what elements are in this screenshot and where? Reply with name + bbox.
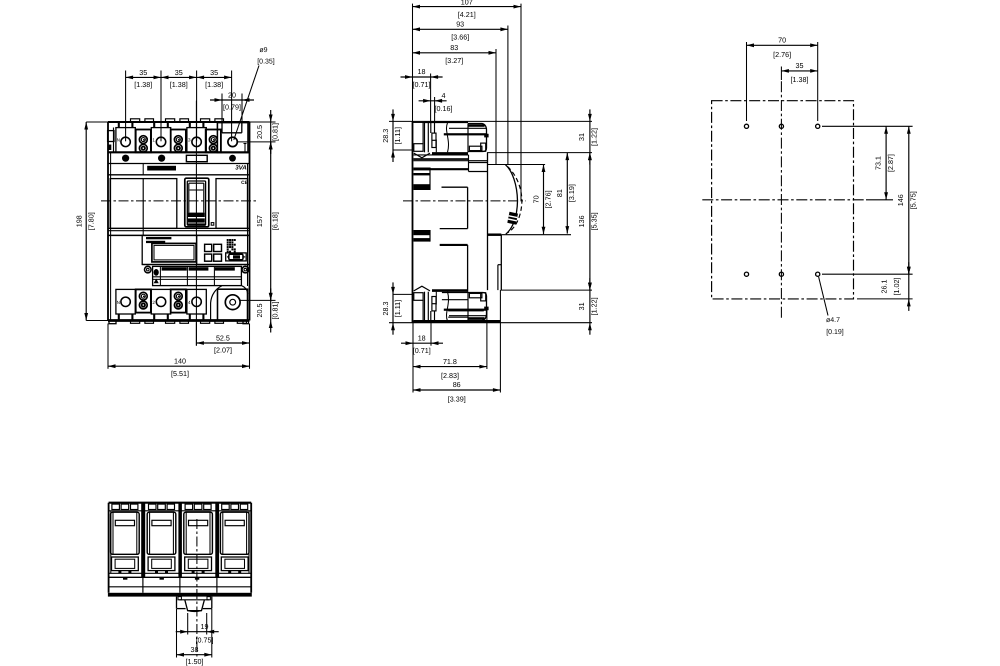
svg-text:4: 4 <box>442 91 446 100</box>
svg-text:[2.76]: [2.76] <box>544 190 553 208</box>
svg-text:[0.71]: [0.71] <box>413 346 431 355</box>
svg-text:[5.75]: [5.75] <box>909 191 918 209</box>
svg-text:136: 136 <box>577 215 586 227</box>
svg-text:[3.19]: [3.19] <box>567 184 576 202</box>
svg-text:26.1: 26.1 <box>880 280 889 294</box>
dimension 93 <box>413 20 508 42</box>
svg-text:[1.22]: [1.22] <box>590 297 599 315</box>
side view vertical extension lines top <box>413 4 522 201</box>
dimension 146 <box>896 126 918 274</box>
dimension 28.3 top extension <box>393 149 414 151</box>
svg-text:38: 38 <box>191 645 199 654</box>
svg-text:146: 146 <box>896 194 905 206</box>
side view right extension line terminal top <box>487 152 592 154</box>
side view bottom extension lines <box>413 290 500 392</box>
svg-text:35: 35 <box>175 68 183 77</box>
front view ETU bottom line <box>142 264 249 266</box>
label diameter 4.7 <box>819 277 844 336</box>
svg-text:35: 35 <box>210 68 218 77</box>
dimension 73.1 <box>873 126 894 200</box>
front view bottom feet tabs <box>109 321 249 324</box>
svg-text:20.5: 20.5 <box>255 303 264 317</box>
side view DIN tabs upper <box>414 168 431 191</box>
side view right extension line terminal bottom <box>501 289 593 291</box>
front view bottom terminal wells N 2 4 <box>116 289 206 320</box>
svg-text:[0.19]: [0.19] <box>826 328 844 336</box>
drilling plan horizontal centerline <box>702 199 863 201</box>
svg-text:CE: CE <box>241 180 248 186</box>
front view toggle handle <box>185 178 209 227</box>
dimension 35 third <box>197 68 232 89</box>
dimension 35 first <box>126 68 161 89</box>
svg-text:[2.83]: [2.83] <box>441 371 459 380</box>
bottom view lower band <box>109 573 252 593</box>
dimension 38 <box>177 645 212 666</box>
svg-text:71.8: 71.8 <box>443 357 457 366</box>
bottom view top slot strip <box>109 504 252 511</box>
svg-text:[2.87]: [2.87] <box>886 154 895 172</box>
svg-text:70: 70 <box>778 36 786 45</box>
svg-text:[0.75]: [0.75] <box>196 635 214 644</box>
svg-text:3: 3 <box>188 138 191 143</box>
side view bottom edge <box>414 320 501 323</box>
dimension 20 <box>210 90 254 111</box>
dimension 70 side <box>531 165 552 235</box>
svg-text:ø9: ø9 <box>259 47 267 54</box>
svg-text:1: 1 <box>152 138 155 143</box>
front view bottom right terminal <box>211 286 248 321</box>
svg-text:[1.11]: [1.11] <box>393 300 402 317</box>
svg-text:86: 86 <box>453 380 461 389</box>
dimension 198 extension lines <box>86 122 108 321</box>
dimension 52.5 extension lines <box>196 323 249 369</box>
svg-text:81: 81 <box>555 189 564 197</box>
svg-text:[7.80]: [7.80] <box>87 212 96 230</box>
dimension 81 <box>555 153 576 234</box>
front view label strip <box>145 266 249 285</box>
svg-text:[6.18]: [6.18] <box>271 212 280 230</box>
side view lower protrusion <box>440 245 468 291</box>
mounting hole top left <box>744 124 748 128</box>
dimension 157 extension line <box>240 299 275 301</box>
svg-text:[1.11]: [1.11] <box>393 127 402 144</box>
svg-text:70: 70 <box>531 195 540 203</box>
side view bottom extension line <box>389 322 592 324</box>
front view left edge bracket <box>108 128 114 153</box>
svg-text:93: 93 <box>456 20 464 29</box>
svg-text:N: N <box>117 138 120 143</box>
svg-text:[3.27]: [3.27] <box>445 56 463 65</box>
front view pole divider lines <box>142 228 144 235</box>
front view QR data matrix <box>227 239 236 253</box>
side view top terminal lug <box>413 122 489 158</box>
svg-text:4: 4 <box>188 300 191 305</box>
svg-text:[0.16]: [0.16] <box>435 104 453 113</box>
svg-text:[2.76]: [2.76] <box>773 50 791 59</box>
mounting hole top middle <box>779 124 783 128</box>
svg-text:28.3: 28.3 <box>381 302 390 316</box>
svg-text:[1.38]: [1.38] <box>134 80 152 89</box>
dimension 107 <box>413 0 522 19</box>
mounting hole bottom right <box>816 272 820 276</box>
front view top right terminal <box>217 123 248 153</box>
front view top cover tabs <box>131 119 224 122</box>
drill dim extension lines vertical <box>747 42 818 121</box>
bottom view DIN rail foot <box>177 597 212 612</box>
dimension 26.1 <box>880 262 911 311</box>
side view lower band lines <box>442 293 484 318</box>
dimension 83 <box>413 43 497 65</box>
dimension 31 top <box>577 109 598 164</box>
side view step to handle plane <box>488 235 572 290</box>
dimension 52.5 <box>196 333 249 354</box>
side view top extension line <box>389 120 592 122</box>
front view horizontal centerline <box>101 200 256 202</box>
side view mid face <box>440 187 468 228</box>
svg-text:[2.07]: [2.07] <box>214 346 232 355</box>
svg-text:157: 157 <box>255 215 264 227</box>
svg-text:20.5: 20.5 <box>255 125 264 139</box>
dimension 35 drill <box>781 61 817 84</box>
front view lower band lines <box>108 231 250 236</box>
label diameter 9 <box>234 47 275 140</box>
dimension 18 bottom <box>401 333 443 355</box>
side view toggle handle grip <box>507 212 518 225</box>
svg-text:[0.79]: [0.79] <box>223 103 241 112</box>
dimension 86 <box>413 380 500 403</box>
side view upper band lines <box>414 155 488 172</box>
mounting hole bottom left <box>744 272 748 276</box>
svg-text:[1.38]: [1.38] <box>205 80 223 89</box>
dimension 18 top <box>401 67 443 89</box>
dimension 28.3 bottom <box>381 282 402 334</box>
mounting hole bottom middle <box>779 272 783 276</box>
front view top clamp blocks <box>136 130 221 153</box>
dimension 157 <box>255 142 280 301</box>
bottom view pole covers <box>111 512 249 573</box>
svg-text:[1.22]: [1.22] <box>590 128 599 146</box>
svg-text:35: 35 <box>139 68 147 77</box>
side view back edge <box>412 121 414 322</box>
svg-text:[0.71]: [0.71] <box>413 80 431 89</box>
svg-text:[5.51]: [5.51] <box>171 369 189 378</box>
svg-text:18: 18 <box>418 333 426 342</box>
front view body outline <box>108 122 250 321</box>
svg-text:198: 198 <box>75 215 84 227</box>
svg-text:[3.39]: [3.39] <box>448 395 466 404</box>
svg-text:3VA: 3VA <box>235 165 247 172</box>
svg-text:[0.81]: [0.81] <box>271 301 280 319</box>
svg-text:[1.50]: [1.50] <box>186 657 204 666</box>
bottom view dim extensions 38 <box>177 609 212 658</box>
svg-text:31: 31 <box>577 133 586 141</box>
svg-text:31: 31 <box>577 302 586 310</box>
svg-text:[0.35]: [0.35] <box>257 58 275 66</box>
svg-text:107: 107 <box>461 0 473 6</box>
svg-text:2: 2 <box>152 300 155 305</box>
bottom view outline <box>108 503 252 597</box>
side view centerline <box>403 200 526 202</box>
dimension 198 height <box>75 122 96 321</box>
svg-text:[1.38]: [1.38] <box>791 75 809 84</box>
side view upper front face <box>488 153 546 291</box>
front view upper band <box>108 152 250 175</box>
dimension 20 extension lines <box>222 94 242 127</box>
svg-text:19: 19 <box>201 622 209 631</box>
front view bottom clamp blocks <box>136 289 186 312</box>
dimension 31 bottom <box>577 278 598 335</box>
dimension 136 <box>577 153 598 291</box>
svg-text:[1.38]: [1.38] <box>170 80 188 89</box>
dimension 140 <box>108 356 250 378</box>
drill dim extension lines horizontal <box>822 126 913 299</box>
side view handle escutcheon arc <box>506 165 522 234</box>
svg-text:[1.02]: [1.02] <box>892 278 901 296</box>
mounting hole top right <box>816 124 820 128</box>
svg-text:N: N <box>117 300 120 305</box>
front view trip unit ETU <box>142 235 249 264</box>
dimension 20.5 bottom <box>255 288 280 332</box>
dimension 19 <box>176 622 219 644</box>
dimension 35 pole pitch extension lines <box>126 71 232 142</box>
front view top terminal wells N 1 3 <box>116 122 206 152</box>
drilling plan dashed outline <box>712 101 854 299</box>
side view bottom terminal lug <box>413 286 489 322</box>
dimension 28.3 bottom extension <box>393 293 414 295</box>
dimension 35 second <box>161 68 197 89</box>
front view vertical centerline <box>195 101 197 346</box>
side view DIN tabs lower <box>414 230 431 242</box>
front view test connector <box>226 253 247 261</box>
svg-text:140: 140 <box>174 356 186 365</box>
dimension 20.5 top <box>255 110 280 154</box>
svg-text:ø4.7: ø4.7 <box>826 317 840 324</box>
svg-text:28.3: 28.3 <box>381 129 390 143</box>
svg-text:83: 83 <box>450 43 458 52</box>
front view face panel <box>108 164 250 229</box>
dimension 70 drill <box>747 36 818 60</box>
svg-text:18: 18 <box>418 67 426 76</box>
svg-text:73.1: 73.1 <box>873 156 882 170</box>
svg-text:35: 35 <box>796 61 804 70</box>
svg-text:52.5: 52.5 <box>216 333 230 342</box>
dimension 4 <box>419 91 453 113</box>
svg-text:[5.35]: [5.35] <box>590 212 599 230</box>
svg-text:20: 20 <box>228 90 236 99</box>
svg-text:[4.21]: [4.21] <box>458 10 476 19</box>
dimension 71.8 <box>413 357 487 380</box>
bottom view pole divider bars <box>141 503 219 578</box>
drilling plan vertical centerline <box>780 81 782 318</box>
dimension 28.3 top <box>381 109 402 162</box>
bottom view centerline <box>196 519 198 660</box>
dimension 20.5 top extension lines <box>238 122 276 142</box>
bottom view dim extensions 19 <box>188 613 207 635</box>
dimension 140 extension line <box>107 324 109 369</box>
svg-text:[3.66]: [3.66] <box>451 33 469 42</box>
svg-text:[0.81]: [0.81] <box>271 123 280 141</box>
